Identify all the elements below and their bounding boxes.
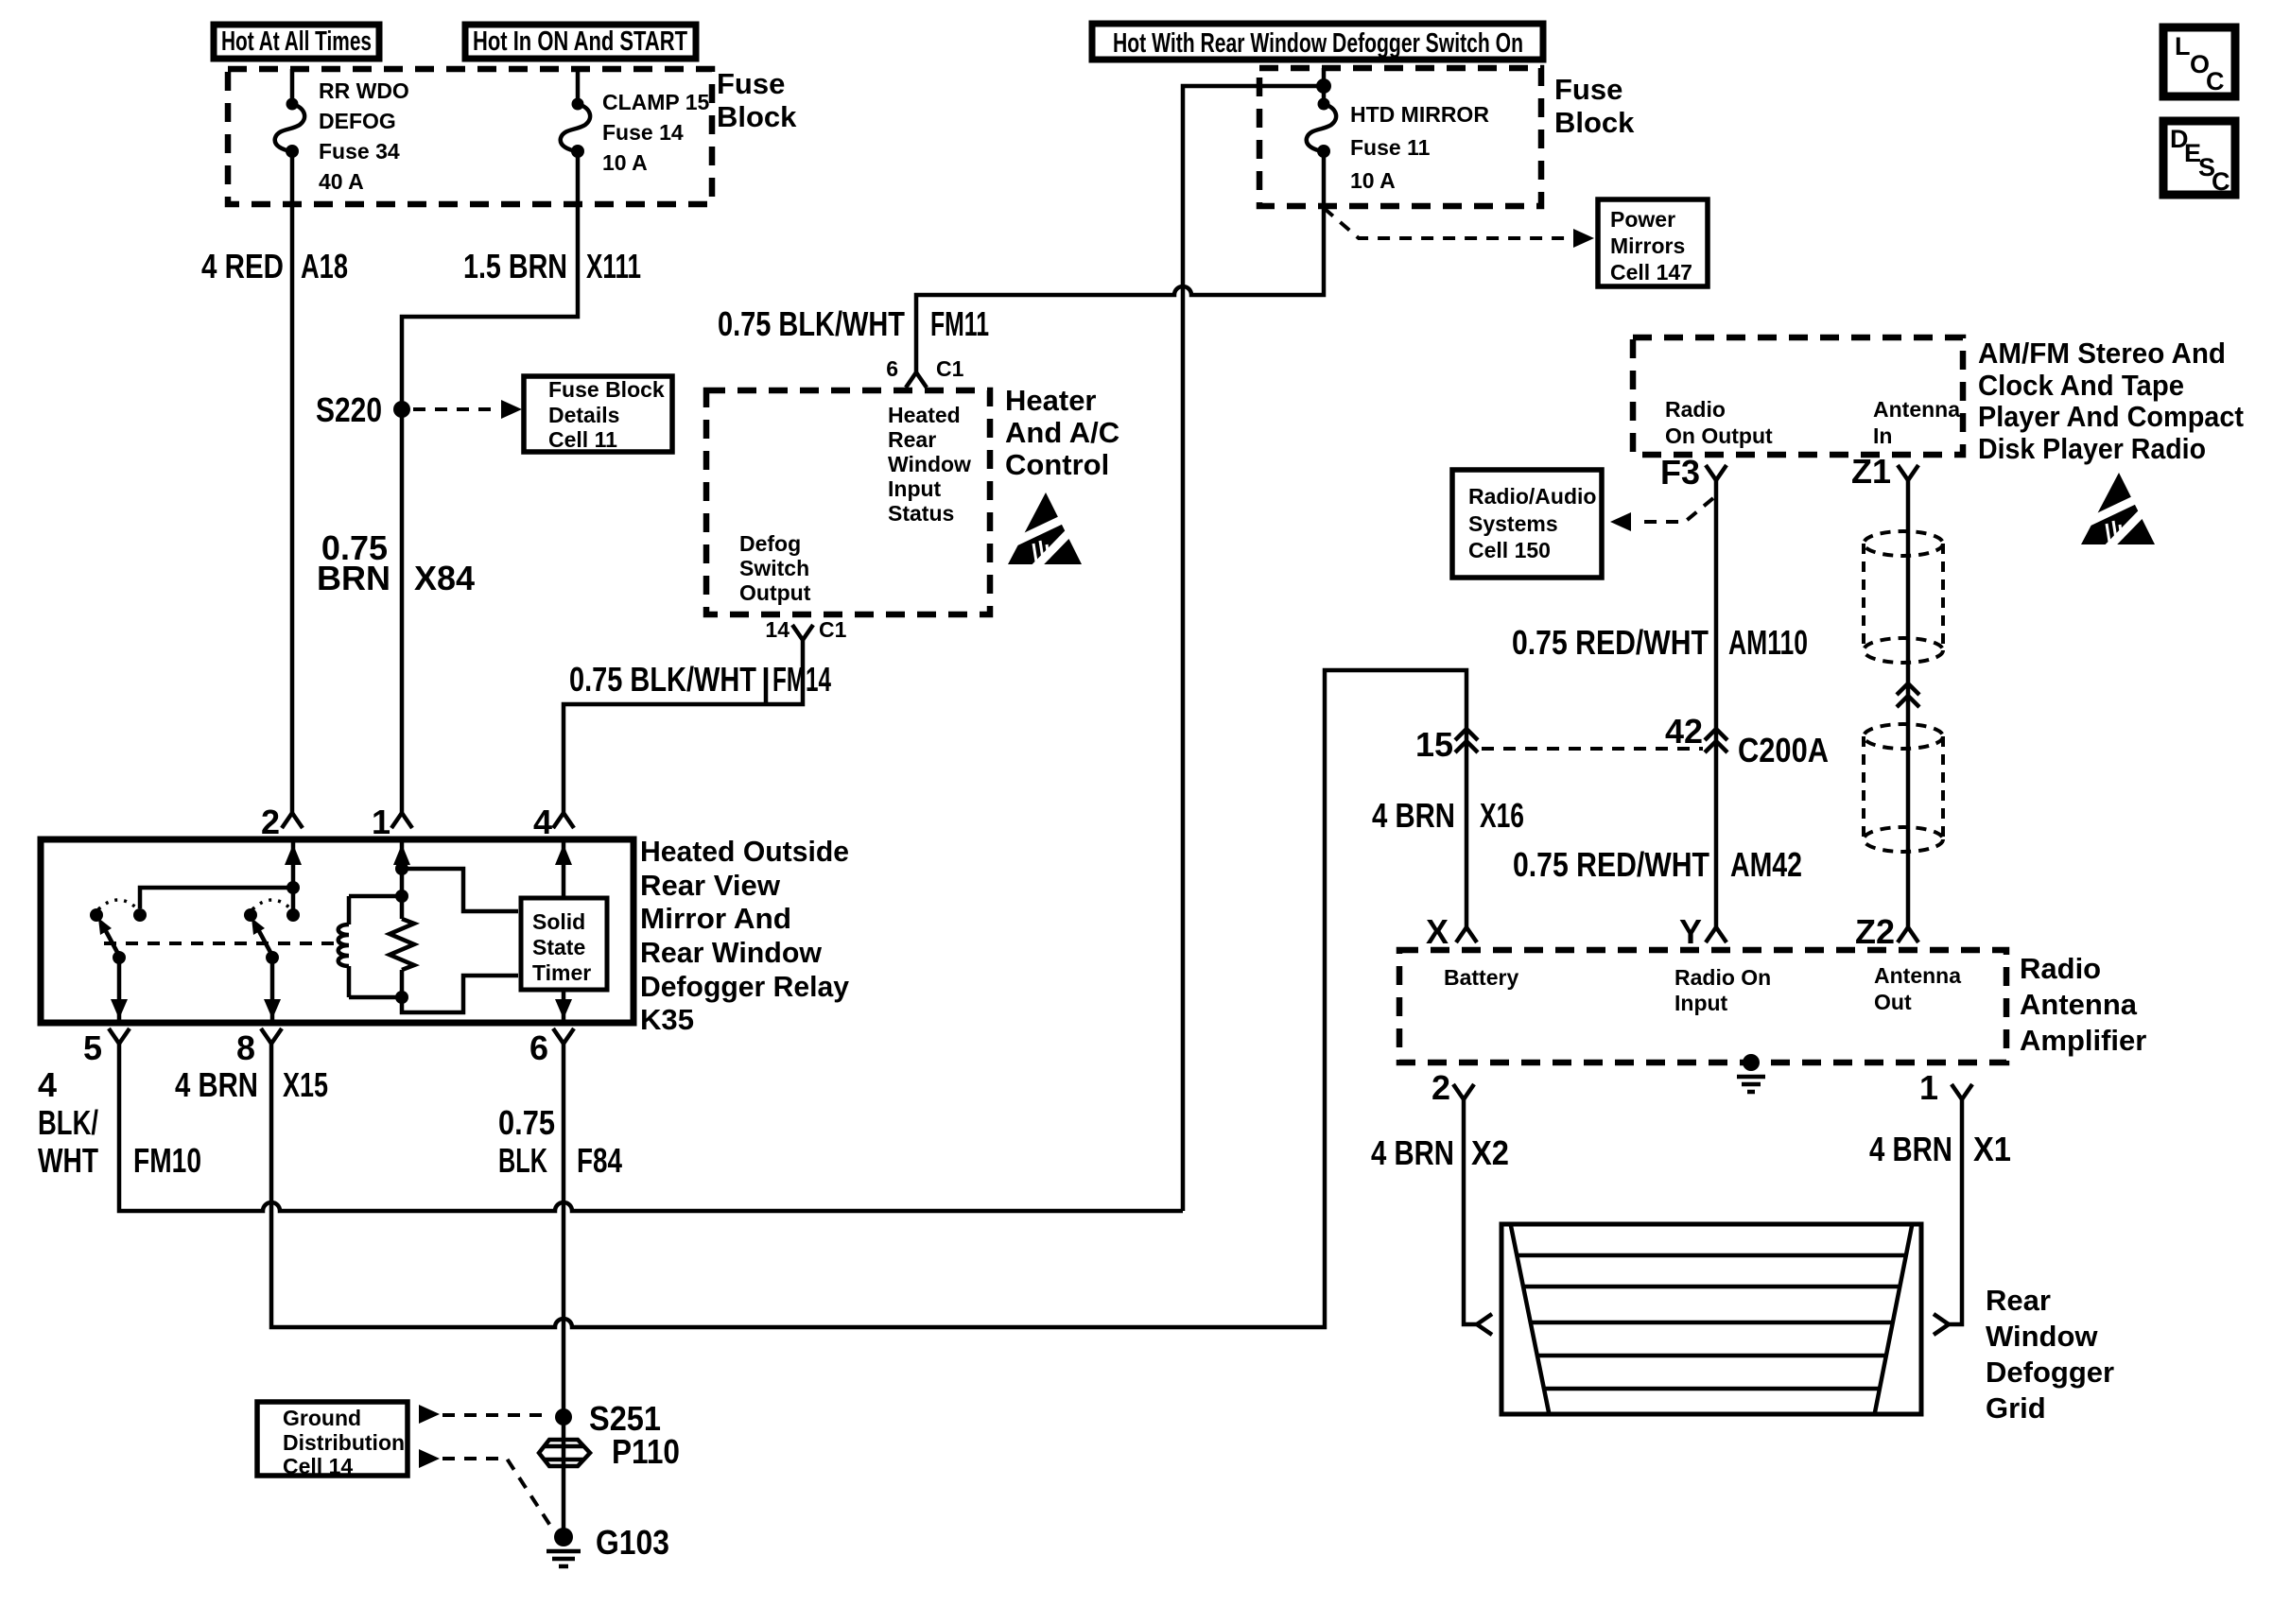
wire X15/X16: relay pin 8 to C200A pin 15 to amplifier pin X	[271, 670, 1466, 1327]
svg-text:14: 14	[765, 617, 789, 642]
relay K35 box	[41, 839, 633, 1023]
dashed arrows from ground distribution	[419, 1405, 440, 1424]
svg-text:Heated Outside: Heated Outside	[640, 835, 849, 868]
Radio Antenna Amplifier (dashed component box)	[1399, 950, 2006, 1063]
svg-text:4: 4	[38, 1065, 57, 1104]
svg-text:C1: C1	[936, 356, 964, 381]
ESD symbol (heater)	[1008, 492, 1082, 568]
svg-text:4 BRN: 4 BRN	[1372, 796, 1455, 835]
switch 1 (left)	[98, 900, 138, 909]
fuse RR WDO DEFOG Fuse 34 40 A	[290, 69, 295, 99]
svg-text:Cell 150: Cell 150	[1468, 538, 1551, 562]
pin 8 fork	[261, 1028, 282, 1044]
wire FM11: heater ctrl pin 6 C1 to fuse 11	[916, 155, 1324, 372]
svg-text:4 BRN: 4 BRN	[1869, 1130, 1952, 1168]
svg-text:Grid: Grid	[1986, 1391, 2046, 1425]
ref box: Fuse Block Details Cell 11	[524, 376, 672, 452]
svg-text:In: In	[1873, 423, 1892, 448]
svg-text:Hot At All Times: Hot At All Times	[221, 26, 372, 57]
svg-text:Details: Details	[548, 403, 619, 427]
svg-text:C: C	[2206, 67, 2225, 95]
svg-text:Block: Block	[717, 100, 797, 133]
fuse F14 element	[561, 98, 590, 159]
svg-text:C: C	[2212, 167, 2230, 196]
svg-text:BLK/: BLK/	[38, 1103, 98, 1142]
svg-text:F84: F84	[577, 1141, 622, 1180]
svg-text:Fuse 11: Fuse 11	[1350, 135, 1431, 160]
grid left connector fork	[1477, 1314, 1492, 1335]
svg-text:Radio: Radio	[1665, 397, 1726, 422]
svg-text:Clock And Tape: Clock And Tape	[1978, 369, 2184, 402]
ground G103	[554, 1528, 573, 1546]
pin 6 C1 connector fork	[906, 372, 927, 388]
svg-text:6: 6	[529, 1028, 548, 1067]
svg-text:4 RED: 4 RED	[201, 247, 284, 285]
dashed arrow to Power Mirrors	[1324, 208, 1570, 238]
fuse F11 element	[1307, 98, 1336, 159]
svg-text:Ground: Ground	[283, 1406, 361, 1430]
pin 6 interior line	[562, 990, 566, 1023]
svg-text:Input: Input	[1674, 991, 1728, 1015]
svg-text:L: L	[2175, 32, 2191, 60]
svg-text:CLAMP 15: CLAMP 15	[602, 90, 710, 114]
svg-text:Hot In ON And START: Hot In ON And START	[473, 26, 687, 57]
svg-text:HTD MIRROR: HTD MIRROR	[1350, 102, 1489, 127]
dashed connector link C200A	[1482, 747, 1703, 751]
svg-text:15: 15	[1415, 725, 1453, 764]
svg-text:Defogger Relay: Defogger Relay	[640, 970, 850, 1003]
svg-text:State: State	[532, 935, 585, 959]
pin 1 fork (amp)	[1952, 1084, 1972, 1099]
svg-text:Disk Player Radio: Disk Player Radio	[1978, 432, 2206, 465]
svg-text:F3: F3	[1660, 453, 1700, 492]
wire FM14: heater pin 14 to relay pin 4	[564, 640, 803, 813]
DESC box	[2163, 121, 2235, 196]
svg-text:Systems: Systems	[1468, 511, 1558, 536]
svg-text:Antenna: Antenna	[1873, 397, 1960, 422]
relay interior: pin2 line to switch contact	[291, 839, 296, 909]
svg-text:AM42: AM42	[1730, 845, 1802, 884]
connector C200A pin 42 chevrons	[1705, 729, 1727, 752]
svg-text:RR WDO: RR WDO	[319, 78, 409, 103]
svg-text:BLK: BLK	[498, 1141, 547, 1180]
svg-text:Radio/Audio: Radio/Audio	[1468, 484, 1596, 509]
svg-text:Antenna: Antenna	[1874, 963, 1961, 988]
svg-text:Y: Y	[1679, 912, 1702, 951]
svg-text:Heated: Heated	[888, 403, 961, 427]
svg-text:Battery: Battery	[1444, 965, 1518, 990]
svg-text:0.75 RED/WHT: 0.75 RED/WHT	[1513, 845, 1709, 884]
svg-text:4 BRN: 4 BRN	[175, 1065, 258, 1104]
mechanical link (dashed)	[104, 942, 342, 945]
svg-text:0.75 BLK/WHT: 0.75 BLK/WHT	[718, 304, 905, 343]
svg-text:Out: Out	[1874, 990, 1912, 1014]
svg-text:Rear: Rear	[1986, 1284, 2051, 1317]
svg-text:5: 5	[83, 1028, 102, 1067]
svg-text:FM11: FM11	[930, 304, 989, 343]
ref box: Power Mirrors Cell 147	[1598, 199, 1708, 286]
svg-text:Antenna: Antenna	[2020, 988, 2138, 1021]
dashed arrow to Fuse Block Details	[413, 407, 496, 411]
svg-text:Timer: Timer	[532, 960, 591, 985]
svg-text:0.75 RED/WHT: 0.75 RED/WHT	[1512, 623, 1709, 662]
svg-text:K35: K35	[640, 1003, 694, 1036]
svg-text:Output: Output	[739, 580, 811, 605]
svg-text:X: X	[1426, 912, 1449, 951]
svg-text:P110: P110	[612, 1432, 680, 1471]
svg-text:Cell 14: Cell 14	[283, 1454, 353, 1478]
wire antenna: radio Z1 to amplifier Z2	[1906, 480, 1911, 927]
svg-text:Fuse 14: Fuse 14	[602, 120, 684, 145]
header box: Hot With Rear Window Defogger Switch On	[1092, 24, 1543, 60]
svg-text:AM/FM Stereo And: AM/FM Stereo And	[1978, 337, 2226, 370]
header box: Hot At All Times	[214, 25, 379, 59]
svg-text:Defogger: Defogger	[1986, 1356, 2114, 1389]
svg-text:40 A: 40 A	[319, 169, 364, 194]
dashed arrow from F3 wire to Radio/Audio box	[1636, 498, 1713, 522]
svg-text:Player And Compact: Player And Compact	[1978, 400, 2244, 433]
pin 1 interior: coil + resistor	[400, 839, 405, 896]
coil	[349, 896, 402, 997]
pin 4 fork	[553, 813, 574, 828]
svg-text:0.75 BLK/WHT: 0.75 BLK/WHT	[569, 660, 756, 699]
svg-text:Window: Window	[888, 452, 971, 476]
svg-text:Control: Control	[1005, 448, 1109, 481]
svg-text:C200A: C200A	[1738, 731, 1829, 769]
wire X1: amp pin 1 to defogger grid right	[1949, 1099, 1962, 1324]
svg-text:0.75: 0.75	[498, 1103, 555, 1142]
svg-text:6: 6	[886, 356, 898, 381]
svg-text:2: 2	[261, 803, 280, 841]
svg-text:Fuse 34: Fuse 34	[319, 139, 400, 164]
splice S220	[393, 401, 410, 418]
fuse HTD MIRROR Fuse 11 10 A	[1322, 68, 1327, 99]
pin Z1 connector fork	[1898, 465, 1918, 480]
svg-text:1: 1	[1919, 1068, 1938, 1107]
svg-text:X84: X84	[414, 559, 475, 597]
resistor	[390, 896, 414, 997]
ESD symbol (radio)	[2081, 473, 2155, 548]
antenna inline connector chevrons	[1897, 683, 1919, 707]
svg-text:Radio: Radio	[2020, 952, 2101, 985]
pin 14 C1 connector fork	[792, 625, 813, 640]
svg-text:Switch: Switch	[739, 556, 809, 580]
solid state timer box	[521, 898, 607, 990]
svg-text:AM110: AM110	[1728, 623, 1808, 662]
shield cylinder 2	[1864, 724, 1943, 852]
pin X fork	[1456, 927, 1477, 942]
grid right connector fork	[1934, 1314, 1949, 1335]
pin Z2 fork	[1898, 927, 1918, 942]
pin 2 fork (amp)	[1453, 1084, 1474, 1099]
svg-text:1.5 BRN: 1.5 BRN	[463, 247, 567, 285]
pin 5 fork	[109, 1028, 130, 1044]
svg-text:Z2: Z2	[1855, 912, 1895, 951]
svg-text:Mirror And: Mirror And	[640, 902, 791, 935]
amplifier case ground	[1743, 1054, 1760, 1071]
svg-text:Hot With Rear Window Defogger: Hot With Rear Window Defogger Switch On	[1113, 28, 1523, 59]
pin 1 fork	[391, 813, 412, 828]
svg-text:1: 1	[372, 803, 390, 841]
ref box: Radio/Audio Systems Cell 150	[1452, 470, 1602, 578]
svg-text:X111: X111	[586, 247, 641, 285]
svg-text:X1: X1	[1973, 1130, 2011, 1168]
pin 4 interior line	[562, 839, 566, 898]
svg-text:Mirrors: Mirrors	[1610, 233, 1685, 258]
svg-text:FM10: FM10	[133, 1141, 201, 1180]
AM/FM radio (dashed component box)	[1633, 337, 1963, 455]
fuse block (left, dashed)	[228, 69, 712, 204]
svg-text:A18: A18	[301, 247, 348, 285]
svg-text:X2: X2	[1471, 1133, 1509, 1172]
svg-text:Distribution: Distribution	[283, 1430, 405, 1455]
ref box: Ground Distribution Cell 14	[257, 1402, 408, 1476]
svg-text:Amplifier: Amplifier	[2020, 1024, 2146, 1057]
pin 2 fork	[282, 813, 303, 828]
svg-text:Heater: Heater	[1005, 384, 1097, 417]
Rear Window Defogger Grid	[1501, 1224, 1921, 1414]
svg-text:S220: S220	[316, 390, 382, 429]
svg-text:Power: Power	[1610, 207, 1675, 232]
svg-text:WHT: WHT	[38, 1141, 98, 1180]
svg-text:X15: X15	[283, 1065, 328, 1104]
LOC box	[2163, 27, 2235, 96]
svg-text:Rear View: Rear View	[640, 869, 781, 902]
svg-text:On Output: On Output	[1665, 423, 1773, 448]
svg-text:X16: X16	[1480, 796, 1524, 835]
svg-text:4: 4	[533, 803, 552, 841]
connector C200A pin 15 chevrons	[1455, 729, 1478, 752]
svg-text:And A/C: And A/C	[1005, 416, 1119, 449]
svg-text:Block: Block	[1554, 106, 1635, 139]
svg-text:2: 2	[1431, 1068, 1450, 1107]
svg-text:10 A: 10 A	[1350, 168, 1396, 193]
svg-text:Rear: Rear	[888, 427, 936, 452]
wire X111 / X84 : fuse 14 output to S220 to relay pin 1	[402, 155, 578, 813]
svg-text:Window: Window	[1986, 1320, 2098, 1353]
svg-text:Z1: Z1	[1851, 452, 1891, 491]
fuse CLAMP 15 Fuse 14 10 A	[576, 69, 581, 99]
switch 2 (right)	[252, 900, 291, 909]
svg-text:Rear Window: Rear Window	[640, 936, 823, 969]
Heater And A/C Control (dashed component box)	[706, 390, 990, 614]
svg-text:Fuse: Fuse	[717, 67, 785, 100]
svg-text:C1: C1	[819, 617, 847, 642]
svg-text:Fuse: Fuse	[1554, 73, 1622, 106]
svg-text:Status: Status	[888, 501, 954, 526]
svg-text:Input: Input	[888, 476, 942, 501]
wire F84: relay pin 6 to S251/P110/G103	[562, 1044, 566, 1529]
svg-text:Defog: Defog	[739, 531, 801, 556]
svg-text:8: 8	[236, 1028, 255, 1067]
shield cylinder 1	[1864, 531, 1943, 663]
svg-text:Cell 147: Cell 147	[1610, 260, 1692, 285]
fuse block (right, dashed)	[1259, 68, 1541, 206]
fuse F34 element	[275, 98, 304, 159]
svg-text:BRN: BRN	[317, 559, 390, 597]
svg-text:Solid: Solid	[532, 909, 585, 934]
pin 6 fork	[553, 1028, 574, 1044]
splice S251	[555, 1408, 572, 1425]
svg-text:42: 42	[1665, 712, 1703, 751]
hot feed wire: fuse11 input left/down to relay pin 5 (FM10)	[1183, 86, 1324, 1211]
svg-text:Cell 11: Cell 11	[548, 427, 617, 452]
svg-text:4 BRN: 4 BRN	[1371, 1133, 1454, 1172]
svg-text:Fuse Block: Fuse Block	[548, 377, 665, 402]
svg-text:Radio On: Radio On	[1674, 965, 1771, 990]
grommet P110	[539, 1440, 590, 1466]
wire X2: amp pin 2 to defogger grid left	[1464, 1099, 1477, 1324]
header box: Hot In ON And START	[465, 25, 696, 59]
pin Y fork	[1706, 927, 1726, 942]
svg-text:DEFOG: DEFOG	[319, 109, 396, 133]
svg-text:G103: G103	[596, 1523, 669, 1562]
wire AM110/AM42: radio F3 down through C200A pin 42 to amplifier pin Y	[1714, 480, 1719, 927]
pin F3 connector fork	[1706, 465, 1726, 480]
svg-text:10 A: 10 A	[602, 150, 648, 175]
svg-text:FM14: FM14	[772, 660, 831, 699]
